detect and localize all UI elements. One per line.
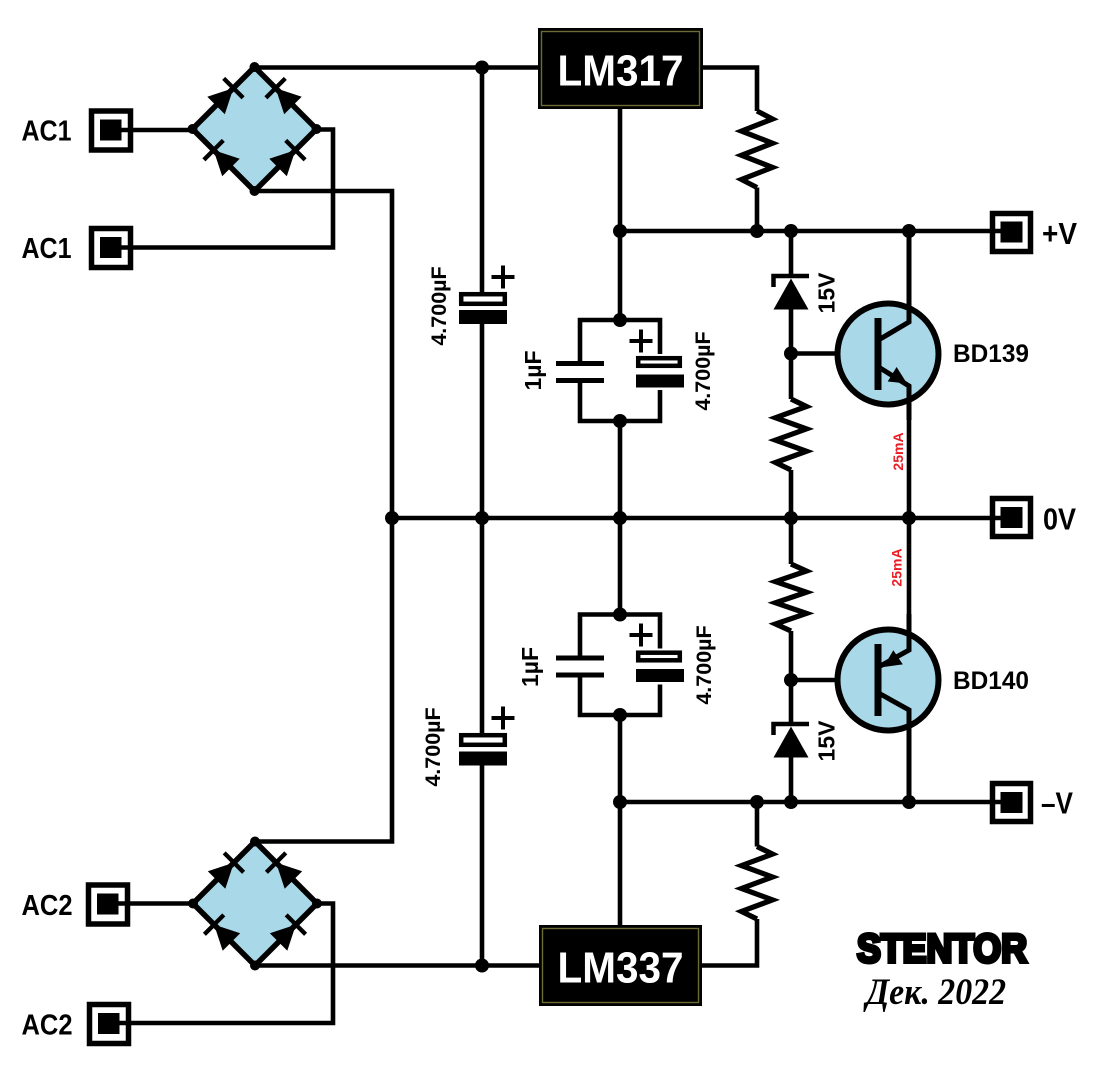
B1 diode D2 (right to top) <box>266 78 302 114</box>
wire bridge1 bottom to bridge2 top (center tap) <box>255 191 393 842</box>
wire R1 to +V rail <box>755 188 760 232</box>
zener diode D9 15V <box>774 272 840 314</box>
capacitor C3 1uF <box>520 350 604 390</box>
regulator U1 LM317 <box>538 28 703 109</box>
svg-text:STENTOR: STENTOR <box>857 927 1027 971</box>
wire smoothing cap C2 branch lower <box>480 764 485 966</box>
decoupling network N2 frame <box>580 615 660 716</box>
svg-text:15V: 15V <box>814 720 840 762</box>
capacitor C6 4.700uF <box>630 624 717 705</box>
wire 0V rail to R4 <box>789 518 794 564</box>
svg-text:4.700µF: 4.700µF <box>427 266 451 345</box>
svg-text:LM317: LM317 <box>558 47 684 96</box>
terminal AC2 (lower) <box>22 1005 129 1044</box>
B1 diode D1 (left to top) <box>207 78 243 114</box>
svg-text:0V: 0V <box>1043 502 1076 537</box>
junction nodes -V rail <box>613 795 916 809</box>
wire AC1 lower to bridge1 right vertex <box>121 130 333 248</box>
wire R4 to node <box>789 631 794 724</box>
B1 diode D4 (bottom to right) <box>269 140 305 176</box>
resistor R1 <box>742 111 773 188</box>
junction node top wire <box>475 61 489 75</box>
capacitor C1 4.700uF <box>427 266 515 346</box>
decoupling network N1 frame <box>580 320 660 421</box>
wire AC2 upper to bridge2 left vertex <box>118 901 193 906</box>
svg-text:AC1: AC1 <box>22 116 72 148</box>
svg-text:BD140: BD140 <box>953 667 1029 695</box>
svg-text:15V: 15V <box>814 272 840 314</box>
wire R2 to 0V rail <box>789 470 794 518</box>
wire bridge2 bottom to LM337 input <box>255 963 539 968</box>
wire LM317 adj pin down <box>618 109 623 320</box>
svg-text:+V: +V <box>1042 216 1077 251</box>
B2 diode D5 (left to top) <box>208 853 244 889</box>
svg-text:4.700µF: 4.700µF <box>691 331 715 410</box>
junction node base Q1 <box>784 347 798 361</box>
wire +V rail to zener D9 <box>789 231 794 276</box>
+V rail <box>620 229 1002 234</box>
junction node base Q2 <box>784 673 798 687</box>
svg-text:25mA: 25mA <box>890 432 906 470</box>
wire AC1 upper to bridge left vertex <box>121 128 193 133</box>
svg-text:25mA: 25mA <box>889 548 905 586</box>
wire R3 to -V rail <box>755 802 760 847</box>
wire base Q2 <box>791 678 878 683</box>
svg-text:Дек. 2022: Дек. 2022 <box>863 972 1006 1013</box>
terminal +V <box>993 214 1078 252</box>
svg-text:AC2: AC2 <box>22 890 73 922</box>
svg-text:BD139: BD139 <box>953 340 1029 368</box>
zener diode D10 15V <box>774 720 840 762</box>
svg-text:AC2: AC2 <box>22 1010 73 1042</box>
svg-text:4.700µF: 4.700µF <box>421 707 445 786</box>
terminal AC2 (upper) <box>22 885 128 924</box>
transistor Q2 BD140 <box>838 518 1030 802</box>
wire base Q1 <box>791 351 878 356</box>
terminal -V <box>993 784 1074 822</box>
svg-text:1µF: 1µF <box>520 350 546 390</box>
resistor R2 <box>776 399 807 470</box>
wire zener D10 to -V rail <box>789 757 794 802</box>
B2 diode D6 (right to top) <box>266 853 302 889</box>
wire N1 to 0V rail <box>618 421 623 518</box>
B1 diode D3 (bottom to left) <box>204 140 240 176</box>
wire LM337 output to R3 <box>702 919 757 966</box>
resistor R4 <box>776 564 807 631</box>
svg-text:LM337: LM337 <box>558 944 684 993</box>
junction nodes N2 <box>613 608 627 723</box>
svg-text:1µF: 1µF <box>517 647 543 687</box>
svg-text:–V: –V <box>1041 786 1073 821</box>
B2 diode D7 (bottom to left) <box>204 915 240 951</box>
junction node LM337 input <box>475 959 489 973</box>
wire N2 to -V rail and LM337 adj <box>618 715 623 925</box>
terminal AC1 (lower) <box>22 229 131 268</box>
wire AC2 lower to bridge2 right vertex <box>119 904 333 1024</box>
junction nodes +V rail <box>613 224 916 238</box>
capacitor C4 4.700uF <box>630 330 716 411</box>
B1 vertex nodes <box>188 62 322 196</box>
regulator U2 LM337 <box>539 925 702 1006</box>
resistor R3 <box>742 847 773 920</box>
terminal AC1 (upper) <box>22 111 131 150</box>
wire zener D9 to node <box>789 309 794 399</box>
svg-text:AC1: AC1 <box>22 233 72 265</box>
transistor Q1 BD139 <box>838 231 1030 518</box>
-V rail <box>620 800 1002 805</box>
wire 0V to N2 <box>618 518 623 615</box>
junction nodes 0V rail <box>385 511 916 525</box>
capacitor C2 4.700uF <box>421 707 515 787</box>
B2 diode D8 (bottom to right) <box>270 915 306 951</box>
bridge rectifier B2 body <box>193 842 317 966</box>
0V rail <box>392 516 1002 521</box>
wire smoothing cap C1 branch upper <box>480 68 485 294</box>
bridge rectifier B1 body <box>193 67 317 191</box>
wire LM317 output to R1 <box>703 68 757 112</box>
svg-text:4.700µF: 4.700µF <box>692 625 716 704</box>
wire bridge1 top to LM317 input <box>255 65 540 70</box>
capacitor C5 1uF <box>517 647 604 687</box>
B2 vertex nodes <box>188 837 322 971</box>
junction nodes N1 <box>613 313 627 428</box>
terminal 0V <box>993 499 1077 537</box>
wire smoothing cap C1 branch lower <box>480 323 485 518</box>
wire smoothing cap C2 branch upper <box>480 518 485 734</box>
